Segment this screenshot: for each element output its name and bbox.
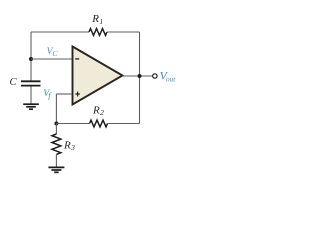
wire noninverting input vertical down to Vf node (55, 94, 57, 124)
ground under capacitor (23, 104, 39, 109)
op-amp inverting input minus sign (75, 58, 79, 60)
wire Vf node to R2 (56, 123, 89, 125)
svg-text:2: 2 (100, 108, 104, 117)
op-amp noninverting input plus sign (75, 92, 80, 97)
wire top feedback right segment (107, 31, 140, 33)
wire top feedback left segment (31, 31, 89, 33)
wire right vertical from R2 up to output node (139, 76, 141, 124)
wire capacitor to ground (30, 87, 32, 104)
wire noninverting input horizontal (56, 93, 72, 95)
node Vf junction dot (54, 122, 58, 126)
svg-text:out: out (166, 75, 176, 83)
resistor R3 (52, 134, 61, 154)
wire right vertical from R1 to output node (139, 32, 141, 76)
terminal Vout open circle (153, 74, 157, 78)
capacitor C (21, 81, 41, 85)
svg-text:R: R (92, 104, 100, 116)
resistor R1 (89, 29, 107, 36)
svg-text:C: C (10, 77, 18, 88)
ground under R3 (48, 167, 64, 172)
wire R2 right segment (108, 123, 140, 125)
wire R3 to ground (55, 154, 57, 166)
node output junction dot (138, 74, 142, 78)
svg-text:1: 1 (99, 17, 103, 26)
svg-text:3: 3 (70, 143, 75, 152)
resistor R2 (90, 120, 108, 127)
svg-text:f: f (48, 90, 52, 100)
svg-text:R: R (63, 139, 71, 151)
wire Vc node to inverting input (31, 58, 72, 60)
svg-text:R: R (91, 13, 99, 25)
node Vc junction dot (29, 57, 33, 61)
wire Vf node down to R3 (55, 124, 57, 135)
wire op-amp output (123, 75, 153, 77)
svg-text:C: C (52, 49, 58, 58)
op-amp U1 body (73, 47, 123, 105)
wire left vertical from R1 down to capacitor (30, 32, 32, 82)
